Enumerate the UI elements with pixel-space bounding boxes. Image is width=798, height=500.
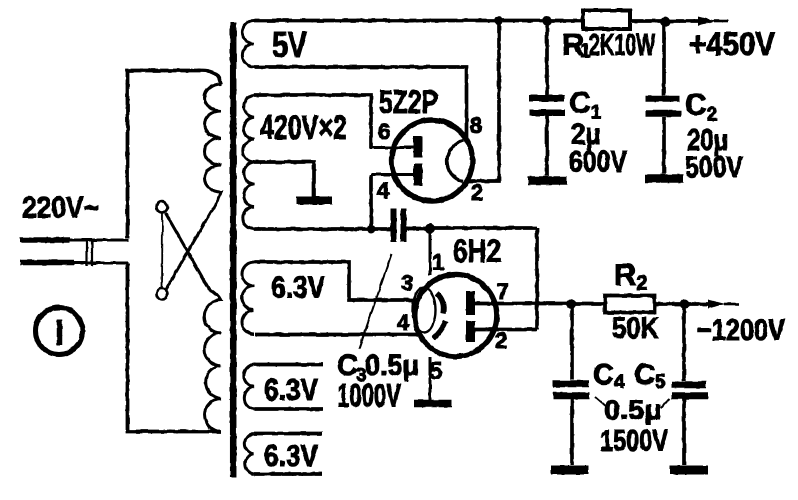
svg-text:8: 8: [470, 113, 482, 138]
node circle 1 callout: [36, 308, 83, 355]
resistor R1: [583, 11, 630, 30]
svg-text:420V×2: 420V×2: [260, 109, 347, 147]
wire pin 2 to top rail: [467, 21, 499, 182]
svg-text:1000V: 1000V: [337, 378, 401, 414]
wire AC input line upper: [20, 237, 70, 243]
svg-text:50K: 50K: [612, 312, 659, 345]
ground C4: [551, 466, 589, 475]
arrow -1200V output: [708, 300, 726, 309]
wire 420V top to pin 6: [254, 95, 371, 148]
6H2 cathode ellipse: [413, 288, 436, 333]
svg-text:3: 3: [401, 271, 413, 296]
ground C1: [528, 176, 567, 185]
ground C2: [646, 174, 684, 183]
svg-text:4: 4: [377, 178, 390, 203]
junction top rail at x499: [494, 16, 503, 25]
transformer 6.3V winding 1: [242, 262, 254, 334]
wire pin 7 lead: [475, 302, 571, 306]
6H2 anode bar upper: [466, 291, 475, 315]
wire to R2: [571, 302, 605, 306]
leader tick right: [661, 399, 670, 408]
wire 6.3V-3 stubs: [254, 432, 322, 436]
svg-text:5Z2P: 5Z2P: [379, 84, 438, 120]
junction C3 right: [425, 224, 435, 234]
transformer primary winding lower half: [166, 213, 222, 432]
wire R2 to output: [655, 302, 711, 306]
tube 6H2 envelope: [415, 274, 497, 356]
wire C3 to junction right: [407, 227, 431, 231]
junction C3 left: [367, 225, 376, 234]
svg-text:5V: 5V: [272, 24, 307, 65]
wire primary loop left/top/bottom: [128, 71, 222, 239]
ground center tap: [296, 197, 332, 205]
svg-text:4: 4: [397, 310, 410, 335]
ground 6H2 cathode: [414, 400, 452, 408]
wire R1 to output: [630, 19, 700, 23]
junction top rail C2: [660, 17, 670, 27]
wire 6.3V-2 stubs: [254, 363, 323, 367]
transformer 5V winding: [242, 21, 254, 68]
wire pin4 drop to C3 junction: [369, 175, 373, 230]
wire 420V center tap: [254, 162, 314, 198]
wire 420V bottom to junction: [254, 227, 391, 231]
connector plug ticks: [87, 240, 92, 266]
svg-text:6: 6: [378, 119, 390, 144]
leader tick left: [595, 397, 607, 408]
wire pin 1: [429, 229, 432, 276]
wire AC input line lower: [20, 260, 74, 266]
svg-text:220V~: 220V~: [22, 192, 99, 225]
capacitor C3 plates: [391, 209, 397, 243]
svg-text:6H2: 6H2: [453, 233, 501, 269]
junction R2 left: [566, 299, 576, 309]
6H2 grid stroke lower: [433, 321, 446, 339]
switch contact lower: [157, 289, 168, 300]
svg-text:6.3V: 6.3V: [264, 372, 318, 407]
svg-text:2K10W: 2K10W: [589, 27, 655, 62]
svg-text:2: 2: [471, 180, 483, 205]
ground C5: [670, 466, 709, 475]
svg-text:7: 7: [497, 279, 509, 304]
junction R2 right: [680, 299, 690, 309]
transformer core: [230, 22, 237, 477]
transformer 6.3V winding 2: [244, 365, 254, 410]
svg-text:1500V: 1500V: [600, 425, 668, 458]
transformer primary winding upper half: [166, 84, 222, 290]
svg-text:2: 2: [495, 328, 507, 353]
capacitor C5: [682, 304, 686, 381]
wire 6H2 box right: [535, 228, 539, 330]
wire pin 2 lead: [475, 328, 537, 332]
resistor R2: [605, 296, 655, 313]
wire pin 4 lead: [371, 173, 414, 176]
svg-text:600V: 600V: [569, 146, 627, 179]
transformer 420V winding: [243, 95, 254, 229]
capacitor C1: [545, 21, 549, 96]
wire pin 5 down: [429, 357, 432, 401]
wire top rail from 5V winding: [254, 19, 583, 23]
5Z2P anode plate upper: [414, 136, 423, 158]
svg-text:0.5μ: 0.5μ: [604, 395, 662, 425]
C3 leader line: [359, 254, 392, 349]
wire pin 6 lead: [370, 146, 415, 149]
svg-text:6.3V: 6.3V: [264, 438, 318, 473]
wire 6.3V top to pin 3: [254, 262, 418, 300]
svg-text:−1200V: −1200V: [697, 314, 785, 347]
svg-text:6.3V: 6.3V: [271, 270, 325, 305]
switch contact upper: [157, 202, 168, 213]
arrow +450V output: [698, 17, 716, 26]
6H2 grid stroke upper: [437, 293, 444, 314]
svg-text:+450V: +450V: [689, 26, 776, 62]
tube 5Z2P envelope: [392, 120, 473, 201]
wire 6.3V bottom to pin 4: [255, 333, 418, 337]
wire between switch contacts: [161, 213, 164, 289]
svg-text:500V: 500V: [685, 151, 743, 184]
transformer 6.3V winding 3: [245, 434, 254, 475]
wire 5V bottom to pin 8: [254, 67, 467, 140]
wire 6H2 box top: [430, 226, 537, 230]
svg-text:1: 1: [432, 250, 444, 275]
capacitor C2: [662, 21, 666, 95]
6H2 anode bar lower: [466, 321, 475, 342]
junction top rail C1: [542, 16, 552, 26]
5Z2P anode plate lower: [414, 164, 423, 186]
capacitor C4: [570, 304, 574, 380]
5Z2P cathode arc: [447, 141, 464, 182]
